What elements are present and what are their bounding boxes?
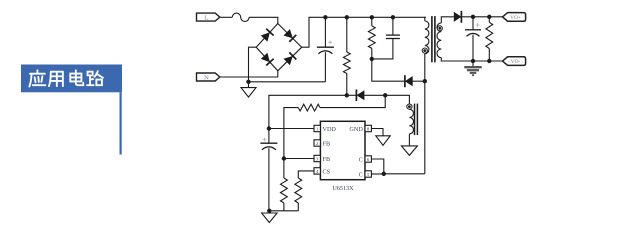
wire VDD node to diode	[347, 94, 357, 96]
wire clamp diode to drain node	[412, 80, 425, 82]
junction primary ground	[246, 80, 250, 84]
junction bottom ground	[267, 209, 271, 213]
junction snubber R top	[370, 15, 374, 19]
wire aux node to aux winding	[385, 95, 409, 104]
resistor R1 (startup)	[343, 52, 350, 74]
junction bulk cap top	[323, 15, 327, 19]
svg-text:VO+: VO+	[510, 15, 521, 21]
primary phase dot	[422, 48, 427, 53]
U1 pin labels	[323, 126, 364, 179]
wire rail to startup resistor	[346, 17, 348, 52]
wire FB node up	[284, 108, 298, 159]
bridge diode D4 (lower-right)	[284, 52, 297, 65]
capacitor C2 (snubber)	[386, 35, 400, 38]
fuse F1	[232, 13, 249, 21]
ground earth (secondary)	[464, 61, 481, 75]
wire rail to snubber C	[392, 17, 394, 35]
wire primary ground bus	[249, 81, 326, 83]
junction startup resistor top	[345, 15, 349, 19]
junction output cap bottom	[471, 59, 475, 63]
wire secondary top to output diode	[441, 17, 454, 23]
wire N to bridge bottom	[220, 71, 278, 77]
wire diode to aux junction	[364, 94, 385, 96]
op-amp U1 (U6513X controller) body	[320, 121, 365, 179]
junction snubber C top	[391, 15, 395, 19]
wire VDD cap to ground	[268, 148, 270, 211]
wire C pin upper	[371, 159, 383, 174]
svg-text:VDD: VDD	[323, 126, 337, 133]
wire rail to primary top	[425, 17, 426, 21]
wire snubber to clamp diode	[372, 59, 405, 81]
capacitor C3 (output electrolytic)	[465, 23, 481, 36]
wire output diode to VO+	[461, 16, 502, 18]
wire FB lower resistor to ground	[283, 203, 285, 211]
bridge rectifier frame	[256, 24, 302, 71]
wire C pins to drain line	[384, 173, 425, 175]
wire bridge left vertex to ground bus	[249, 47, 257, 82]
resistor R3 (output load)	[486, 22, 493, 48]
wire output cap bottom	[472, 35, 474, 61]
junction snubber bottom	[370, 57, 374, 61]
junction C pins	[382, 172, 386, 176]
junction VDD pin tap	[267, 126, 271, 130]
diode D5 (clamp, cathode left)	[405, 75, 413, 87]
wire snubber C bottom	[372, 39, 393, 59]
wire primary bottom to drain	[424, 54, 426, 81]
wire FB node down	[283, 159, 285, 179]
ground bridge (primary GND)	[241, 82, 256, 97]
wire drain line to C pins	[424, 81, 426, 174]
terminal N (AC neutral input)	[197, 73, 220, 81]
wire secondary bottom to output rail	[441, 58, 502, 61]
ground bottom (signal GND)	[262, 211, 278, 223]
terminal L (AC live input)	[197, 13, 220, 21]
wire fuse to bridge top	[249, 17, 278, 23]
svg-text:FB: FB	[323, 140, 331, 147]
terminal VO+	[503, 13, 526, 22]
secondary phase dot	[437, 26, 442, 31]
blue title box + leader line	[21, 65, 122, 155]
wire rail to bulk cap	[324, 17, 326, 47]
svg-text:L: L	[205, 14, 209, 21]
junction output cap top	[471, 15, 475, 19]
svg-text:C: C	[359, 156, 363, 163]
wire output resistor bottom	[488, 49, 490, 62]
U1 right pins 8,6,5	[365, 125, 371, 177]
junction drain node	[423, 79, 427, 83]
bridge diode D2 (upper-right)	[284, 29, 297, 42]
U1 part number label	[332, 185, 354, 192]
resistor R5 (FB lower)	[281, 178, 288, 203]
bridge diode D1 (upper-left)	[261, 29, 274, 42]
wire L to fuse	[220, 16, 233, 18]
wire to output resistor	[488, 17, 490, 23]
wire bridge right vertex to HV rail	[302, 17, 426, 47]
capacitor C4 (VDD)	[260, 138, 277, 150]
resistor R2 (snubber)	[368, 26, 375, 49]
capacitor C1 (bulk electrolytic)	[317, 40, 334, 53]
aux winding L1	[409, 109, 413, 134]
svg-text:GND: GND	[349, 126, 363, 133]
junction FB node	[282, 156, 286, 160]
wire aux winding to ground	[408, 134, 410, 146]
wire snubber R bottom	[371, 48, 373, 59]
wire bottom ground bus	[269, 210, 298, 212]
wire VDD node to VDD line	[269, 95, 347, 143]
wire C pin lower	[371, 173, 383, 175]
aux winding phase dot	[407, 104, 412, 109]
transformer T1 primary winding	[425, 21, 429, 54]
wire VDD tap to pin	[269, 128, 314, 130]
title text 应用电路 (hand-drawn strokes)	[29, 70, 103, 86]
wire CS pin to resistor	[298, 171, 314, 178]
bridge diode D3 (lower-left)	[261, 53, 274, 66]
wire FB resistor to aux node	[320, 95, 385, 107]
wire GND pin to ground	[371, 129, 383, 136]
terminal VO-	[503, 57, 526, 66]
aux winding core	[415, 104, 418, 136]
svg-text:U6513X: U6513X	[332, 185, 354, 192]
junction output resistor top	[487, 15, 491, 19]
svg-text:N: N	[204, 74, 209, 81]
junction VDD node	[345, 93, 349, 97]
wire to output cap	[472, 17, 474, 30]
U1 left pins 1-4	[314, 125, 320, 174]
svg-text:C: C	[359, 171, 363, 178]
diode D6 (output rectifier)	[454, 11, 462, 23]
junction aux node	[383, 93, 387, 97]
resistor R4 (FB upper)	[298, 104, 320, 111]
svg-text:VO-: VO-	[511, 59, 521, 65]
transformer core	[432, 16, 435, 62]
ground aux winding	[401, 146, 417, 156]
resistor R6 (CS)	[295, 178, 302, 203]
wire FB pin to divider	[284, 158, 314, 160]
svg-text:FB: FB	[323, 156, 331, 163]
transformer T1 secondary winding	[437, 23, 441, 58]
svg-text:CS: CS	[323, 168, 331, 175]
wire rail to snubber R	[371, 17, 373, 26]
wire startup resistor to VDD node	[346, 74, 348, 96]
junction output resistor bottom	[487, 59, 491, 63]
wire CS resistor to ground	[297, 203, 299, 211]
diode D7 (VDD rectifier, cathode left)	[356, 90, 364, 102]
ground IC GND pin	[376, 136, 390, 146]
wire bulk cap to ground bus	[324, 52, 326, 82]
